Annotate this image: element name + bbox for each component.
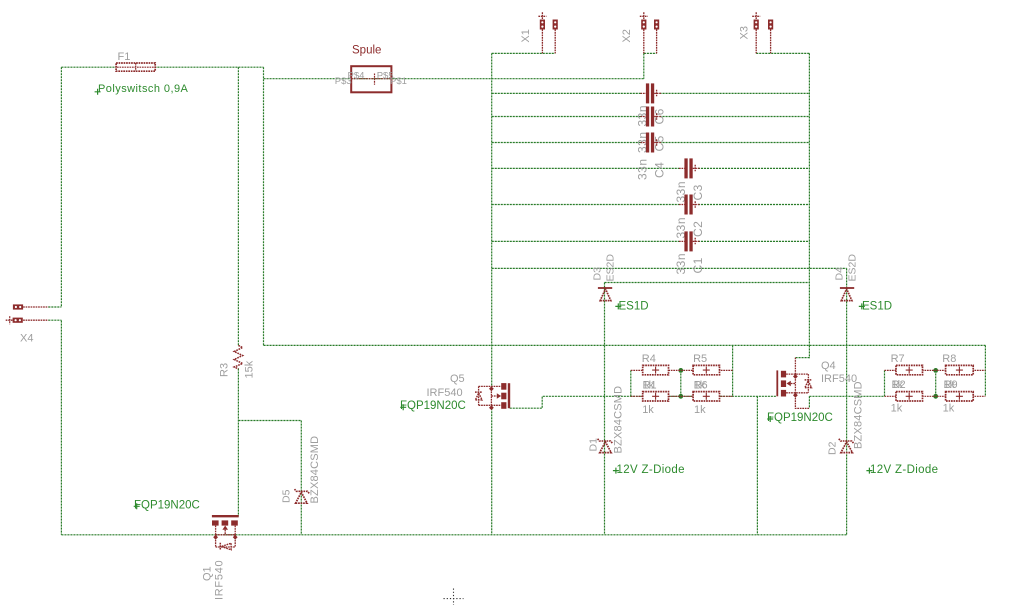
svg-text:1k: 1k (891, 402, 903, 414)
svg-text:Q4: Q4 (821, 360, 836, 372)
label R9 overlapped (944, 379, 958, 391)
svg-text:D2: D2 (827, 441, 839, 455)
wire Q5 gate to gate bus (510, 396, 777, 408)
svg-text:33n: 33n (636, 158, 650, 180)
wire D5 branch horizontal (238, 420, 301, 422)
wire rung C5 (492, 116, 810, 118)
value 1k R1 (642, 404, 654, 416)
resistor R6 (bottom right of left group) (693, 392, 719, 401)
svg-text:C3: C3 (691, 184, 705, 200)
svg-text:R7: R7 (891, 353, 905, 365)
svg-text:D3: D3 (592, 267, 604, 281)
wire Q4 drain jog (795, 345, 809, 357)
transistor Q5 (475, 383, 509, 410)
wire gate bus branch down (756, 396, 758, 535)
resistor R5 (693, 365, 719, 374)
wire X1 join (492, 52, 556, 54)
label BZX84CSMD D5 (309, 436, 321, 504)
wire D4 vertical (846, 268, 848, 534)
label 12V Z-Diode D2 (866, 464, 938, 476)
svg-text:BZX84CSMD: BZX84CSMD (613, 386, 625, 454)
label C6 33n (636, 105, 667, 127)
svg-text:BZX84CSMD: BZX84CSMD (853, 381, 865, 449)
svg-text:X3: X3 (739, 26, 751, 39)
label D3 (592, 267, 604, 281)
label ES2D D4 (847, 254, 859, 282)
label R2 overlapped (892, 379, 906, 391)
value 1k R6 (694, 404, 706, 416)
label 12V Z-Diode D1 (613, 464, 685, 476)
connector X2 (640, 12, 659, 53)
capacitor C6 (641, 83, 662, 103)
resistor R9 (bottom right of right group) (946, 392, 974, 401)
svg-text:X4: X4 (20, 333, 33, 345)
wire bottom rail (61, 534, 846, 536)
label R8 (942, 353, 956, 365)
label 15k (244, 360, 256, 378)
label FQP19N20C Q4 (767, 412, 833, 424)
svg-text:Polyswitsch 0,9A: Polyswitsch 0,9A (98, 83, 189, 95)
svg-text:D4: D4 (834, 267, 846, 281)
svg-text:FQP19N20C: FQP19N20C (767, 412, 833, 424)
svg-text:C1: C1 (691, 257, 705, 273)
connector X3 (752, 12, 773, 53)
svg-text:FQP19N20C: FQP19N20C (134, 499, 200, 511)
label IRF540 Q1 (214, 560, 226, 600)
svg-text:IRF540: IRF540 (821, 373, 857, 385)
resistor R4 (631, 365, 733, 374)
svg-text:P$1: P$1 (390, 76, 407, 87)
wire F1 output corner vertical (263, 67, 265, 345)
node X4 pin wires (48, 307, 61, 320)
svg-text:P$4: P$4 (348, 71, 365, 82)
inductor Spule (351, 66, 391, 92)
svg-text:F1: F1 (118, 51, 131, 63)
connector X1 (538, 12, 557, 53)
svg-text:C4: C4 (653, 162, 667, 178)
svg-text:1k: 1k (943, 402, 955, 414)
pin label P$1 (390, 76, 407, 87)
wire ladder left rail (491, 53, 493, 386)
wire X2 join (644, 53, 657, 78)
label Polyswitsch 0,9A (95, 83, 189, 95)
wire D3 rung (605, 282, 810, 284)
label X1 (520, 29, 532, 42)
svg-text:R8: R8 (942, 353, 956, 365)
zener diode D5 (295, 489, 310, 503)
resistor R3 (234, 345, 242, 368)
resistor R1 (bottom left of left group) (631, 392, 733, 401)
zener diode D1 (598, 439, 613, 453)
svg-text:D1: D1 (588, 438, 600, 452)
label R6 overlapped (694, 380, 708, 392)
wire right group bottom row to Q4 source (809, 396, 884, 408)
wire left rail upper (60, 67, 62, 307)
wire rung to D4 (492, 267, 847, 269)
diode D3 (598, 288, 612, 301)
sheet origin cross (444, 589, 464, 605)
wire R3 branch upper (237, 67, 239, 345)
label Q5 (450, 373, 465, 385)
label R5 (693, 353, 707, 365)
pin label P$4 (348, 71, 365, 82)
label X2 (621, 29, 633, 42)
label D1 (588, 438, 600, 452)
svg-text:1k: 1k (694, 404, 706, 416)
svg-text:FQP19N20C: FQP19N20C (400, 400, 466, 412)
resistor R8 (946, 365, 974, 374)
label BZX84CSMD D2 (853, 381, 865, 449)
label D4 (834, 267, 846, 281)
junction dots resistor groups (678, 368, 938, 399)
svg-text:R3: R3 (219, 363, 231, 377)
svg-text:1k: 1k (694, 380, 706, 392)
value 1k R2 (891, 402, 903, 414)
wire rung C2 (492, 204, 810, 206)
svg-text:BZX84CSMD: BZX84CSMD (309, 436, 321, 504)
capacitor C4 (641, 133, 662, 153)
svg-text:R4: R4 (642, 353, 656, 365)
label Spule (352, 45, 381, 57)
wire rung C4 (492, 142, 810, 144)
wire spule line (264, 78, 644, 80)
svg-text:1k: 1k (892, 379, 904, 391)
svg-text:X2: X2 (621, 29, 633, 42)
svg-text:1k: 1k (944, 379, 956, 391)
label IRF540 Q5 (427, 387, 463, 399)
svg-text:12V Z-Diode: 12V Z-Diode (870, 464, 938, 476)
capacitor C3 (679, 158, 700, 178)
wire long middle line (264, 344, 986, 346)
wire D5 vertical (300, 421, 302, 535)
svg-text:12V Z-Diode: 12V Z-Diode (617, 464, 685, 476)
label BZX84CSMD D1 (613, 386, 625, 454)
label R3 (219, 363, 231, 377)
wire left resistor group verticals (631, 345, 733, 396)
label D5 (281, 489, 293, 503)
svg-text:Spule: Spule (352, 45, 381, 57)
capacitor C1 (679, 231, 700, 251)
capacitor C5 (641, 107, 662, 127)
svg-text:IRF540: IRF540 (427, 387, 463, 399)
wire D3 D1 vertical (604, 283, 606, 535)
wire rung C3 (492, 167, 810, 169)
fuse F1 (116, 63, 155, 71)
label F1 (118, 51, 131, 63)
label IRF540 Q4 (821, 373, 857, 385)
label C2 33n (674, 217, 705, 239)
wire X3 join (756, 52, 809, 54)
label R1 overlapped (643, 380, 657, 392)
resistor R7 (885, 365, 986, 374)
label C1 33n (674, 253, 705, 275)
transistor Q1 (212, 516, 239, 550)
transistor Q4 (777, 358, 812, 409)
capacitor C2 (679, 195, 700, 215)
svg-text:C2: C2 (691, 221, 705, 237)
label FQP19N20C Q1 (134, 499, 200, 511)
label Q1 (202, 566, 214, 581)
pin label P$3 (335, 76, 352, 87)
wire rung C1 (492, 240, 810, 242)
label D2 (827, 441, 839, 455)
label Q4 (821, 360, 836, 372)
svg-text:ES1D: ES1D (619, 301, 649, 313)
wire ladder right rail (808, 53, 810, 345)
svg-text:15k: 15k (244, 360, 256, 378)
wire R3 to Q1 gate (237, 369, 239, 517)
pin label P$5 (377, 71, 394, 82)
svg-text:R5: R5 (693, 353, 707, 365)
zener diode D2 (839, 439, 854, 453)
resistor R2 (bottom left of right group) (885, 392, 986, 401)
label ES1D D4 (859, 301, 892, 313)
label C5 33n (636, 131, 667, 153)
svg-text:ES2D: ES2D (847, 254, 859, 282)
label C4 33n (636, 158, 667, 180)
label ES2D D3 (605, 254, 617, 282)
label FQP19N20C Q5 (400, 400, 466, 412)
wire left rail lower (60, 321, 62, 535)
label X4 (20, 333, 33, 345)
wire right resistor group verticals (885, 345, 986, 396)
wire top rail (61, 66, 263, 68)
svg-text:Q1: Q1 (202, 566, 214, 581)
label C3 33n (674, 181, 705, 203)
svg-text:Q5: Q5 (450, 373, 465, 385)
connector X4 (6, 304, 49, 324)
diode D4 (840, 288, 854, 301)
svg-text:D5: D5 (281, 489, 293, 503)
svg-text:C5: C5 (653, 135, 667, 151)
svg-text:IRF540: IRF540 (214, 560, 226, 600)
wire rung C6 (492, 92, 810, 94)
label R7 (891, 353, 905, 365)
label X3 (739, 26, 751, 39)
label ES1D D3 (615, 301, 648, 313)
label R4 (642, 353, 656, 365)
svg-text:1k: 1k (642, 404, 654, 416)
svg-text:ES1D: ES1D (862, 301, 892, 313)
value 1k R9 (943, 402, 955, 414)
svg-text:33n: 33n (674, 253, 688, 275)
svg-text:1k: 1k (643, 380, 655, 392)
svg-text:ES2D: ES2D (605, 254, 617, 282)
wire Q5 source down (491, 405, 493, 535)
svg-text:X1: X1 (520, 29, 532, 42)
